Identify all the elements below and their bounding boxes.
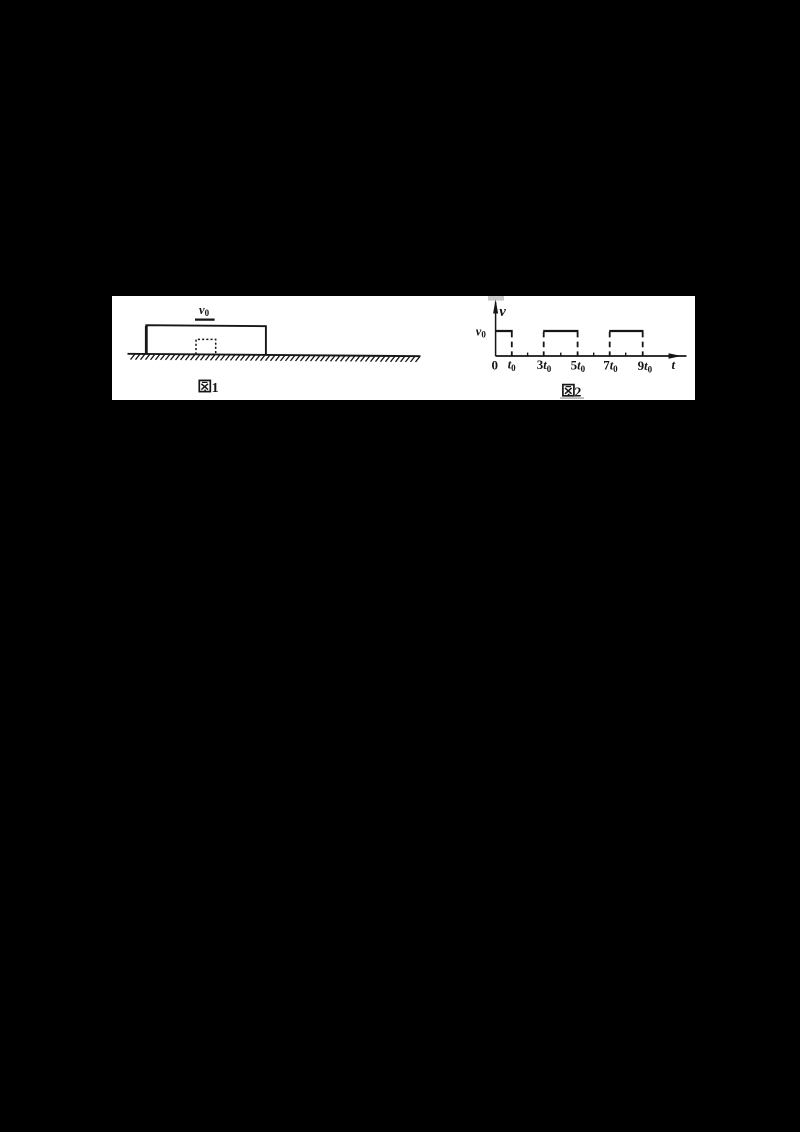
svg-text:v: v — [499, 304, 506, 320]
svg-text:t: t — [672, 357, 676, 372]
svg-text:2: 2 — [574, 385, 581, 400]
svg-text:1: 1 — [212, 381, 219, 396]
svg-text:0: 0 — [492, 357, 499, 372]
